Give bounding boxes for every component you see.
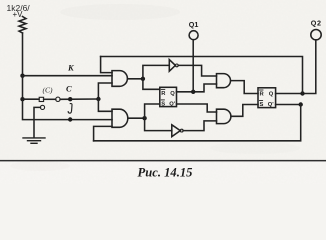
wire K row — [23, 75, 113, 77]
wire C row segment 1 — [23, 98, 40, 100]
paper grain — [0, 0, 326, 184]
inverter U4 — [172, 125, 181, 137]
svg-text:Q1: Q1 — [189, 20, 199, 29]
resistor R1 — [19, 17, 26, 34]
wire FF1 Q to G5 — [177, 84, 217, 92]
wire G6 to FF2 S — [231, 105, 258, 117]
gate G5 (AND, top-right) — [217, 74, 231, 88]
svg-text:Q': Q' — [268, 102, 275, 108]
node K tap junction — [20, 74, 24, 78]
svg-text:Рис. 14.15: Рис. 14.15 — [138, 165, 193, 179]
svg-text:Q': Q' — [169, 101, 176, 107]
node C stub junction — [96, 97, 100, 101]
wire feedback top rail — [101, 57, 303, 94]
node G2 output junction — [142, 116, 146, 120]
wire inverter U4 to G6 — [183, 121, 216, 131]
wire inverter U3 to G5 — [178, 65, 216, 76]
node Q1 tap junction — [191, 90, 195, 94]
svg-text:S: S — [260, 102, 264, 108]
wire Q1 lead — [192, 40, 194, 92]
wire G1 junction to inverter U3 — [143, 65, 169, 78]
svg-text:S: S — [161, 101, 165, 107]
node J junction — [68, 117, 72, 121]
inverter U3 — [169, 60, 175, 72]
gate G6 (AND, bottom-right) — [217, 109, 231, 123]
svg-text:Q: Q — [170, 91, 175, 97]
paper background — [0, 0, 326, 184]
switch lower throw circle — [40, 105, 44, 109]
node C tap junction — [20, 97, 24, 101]
wire FF2 Q to Q2 terminal — [276, 40, 316, 94]
gate G2 (AND, bottom-left) — [112, 109, 128, 127]
node C junction — [68, 97, 72, 101]
terminal Q1 — [189, 31, 198, 40]
wire feedback bottom rail — [94, 105, 301, 141]
wire resistor to K row — [22, 33, 24, 76]
wire left rail K to C — [22, 76, 24, 100]
ground — [23, 138, 45, 143]
wire C stub down to G2 — [98, 99, 112, 111]
node feedback top junction — [300, 91, 304, 95]
wire G1 output — [128, 78, 143, 80]
node G1 output junction — [141, 77, 145, 81]
switch contact circle — [56, 97, 60, 101]
gate G1 (AND, top-left) — [112, 71, 127, 87]
wire C row segment 2 — [44, 98, 56, 100]
wire G2 output — [128, 117, 145, 119]
svg-text:(C): (C) — [43, 86, 54, 95]
node feedback bottom junction — [299, 102, 303, 106]
svg-text:C: C — [66, 84, 72, 94]
wire feedback to G1 input — [101, 57, 112, 73]
caption rule — [0, 160, 326, 162]
wire FF2 Q' output — [276, 104, 301, 106]
svg-text:Q: Q — [269, 91, 274, 97]
label J — [68, 104, 72, 114]
wire C row segment 3 — [60, 98, 99, 100]
switch contact square — [39, 97, 43, 101]
svg-text:Q2: Q2 — [311, 19, 322, 28]
wire FF1 Q' to G6 — [177, 104, 217, 112]
wire C stub up to G1 — [98, 83, 112, 99]
wire G2 junction to inverter U4 — [145, 118, 172, 130]
terminal Q2 — [311, 30, 321, 40]
wire G1 to FF1 R input — [143, 79, 160, 90]
wire left rail C to J corner — [23, 99, 113, 119]
wire G2 to FF1 S input — [145, 104, 160, 118]
svg-text:+V: +V — [13, 10, 24, 19]
latch U2 (slave RS flip-flop) — [258, 88, 276, 108]
latch U1 (master RS flip-flop) — [160, 87, 177, 106]
wire lower throw to ground — [34, 107, 40, 137]
wire feedback to G2 input — [94, 126, 112, 140]
wire G5 to FF2 R — [231, 81, 258, 94]
